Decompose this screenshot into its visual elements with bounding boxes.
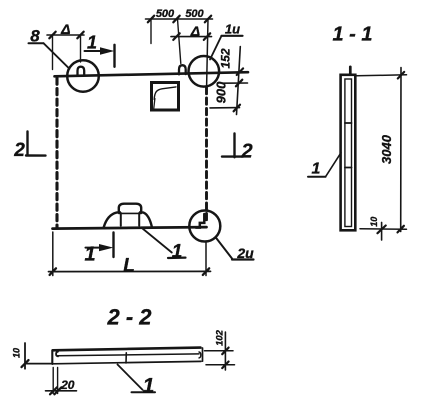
section mark 2 right arm xyxy=(222,155,243,157)
tick xyxy=(398,72,404,79)
bottom loop legs xyxy=(120,213,122,226)
plan left edge (hidden, dashed) xyxy=(55,78,58,228)
svg-text:500: 500 xyxy=(156,8,175,20)
tick xyxy=(50,387,57,394)
extension line left of 500 xyxy=(150,19,152,44)
corner step detail bottom-right xyxy=(196,214,204,228)
label 2i bottom-right leader and underline xyxy=(216,238,232,259)
opening (hole) square xyxy=(152,83,179,111)
tick xyxy=(204,33,210,40)
bottom L dimension line xyxy=(49,270,211,272)
1-1 crossbar lower xyxy=(345,167,352,169)
svg-text:Δ: Δ xyxy=(190,23,200,39)
1-1 top extension xyxy=(357,75,407,76)
extension at y108 xyxy=(210,107,240,109)
2-2 dim 102 bottom extension xyxy=(206,364,235,366)
svg-text:2: 2 xyxy=(240,140,252,162)
dimension delta top-left line xyxy=(47,34,84,36)
tick xyxy=(173,33,179,40)
right vertical dimension line xyxy=(237,47,241,115)
2-2 right groove xyxy=(199,352,201,358)
bottom loop cap xyxy=(119,204,141,213)
tick xyxy=(173,16,179,23)
tick xyxy=(205,16,211,23)
tick xyxy=(222,362,228,369)
svg-text:L: L xyxy=(123,256,135,277)
section mark 1 bottom arrowhead xyxy=(99,244,113,251)
2-2 dim 20 line xyxy=(46,390,77,392)
1-1 panel inner rect xyxy=(345,79,352,227)
detail circle bottom-right xyxy=(189,211,220,242)
svg-text:3040: 3040 xyxy=(379,134,394,164)
1-1 label 1 underline and leader xyxy=(308,176,326,178)
section mark 2 right bar xyxy=(233,134,235,158)
2-2 panel right edge xyxy=(202,348,204,361)
svg-text:10: 10 xyxy=(11,348,21,358)
svg-text:1и: 1и xyxy=(225,21,240,36)
section mark 1 top bar xyxy=(113,45,115,67)
2-2 panel left edge xyxy=(51,350,53,364)
detail circle top-right xyxy=(189,56,220,87)
plan top edge xyxy=(55,72,249,76)
lifting loop top-left xyxy=(78,67,85,76)
bottom L dimension extensions xyxy=(52,232,54,276)
svg-text:Δ: Δ xyxy=(60,21,70,37)
svg-text:102: 102 xyxy=(215,329,226,346)
tick xyxy=(378,226,386,234)
svg-text:500: 500 xyxy=(185,8,204,20)
dimension 500+500 line xyxy=(146,18,213,20)
tick xyxy=(54,387,61,394)
detail circle top-left xyxy=(67,60,99,92)
extension at y83 xyxy=(222,82,248,84)
tick xyxy=(222,348,228,355)
1-1 dimension 3040 line xyxy=(400,68,402,232)
svg-text:2и: 2и xyxy=(236,245,254,261)
section mark 2 left bar xyxy=(26,132,28,156)
tick xyxy=(398,226,404,233)
1-1 dim 10 line xyxy=(381,222,383,240)
tick xyxy=(234,105,240,112)
2-2 panel bottom line xyxy=(53,361,201,363)
tick xyxy=(237,68,243,75)
2-2 dim 10 left vertical xyxy=(24,343,26,369)
svg-text:900: 900 xyxy=(214,81,229,103)
1-1 top stub xyxy=(349,67,352,75)
tick xyxy=(203,268,209,275)
leader to bottom loop label 1 xyxy=(143,229,172,253)
tick xyxy=(236,80,242,87)
section mark 1 top line xyxy=(85,50,104,52)
2-2 mid joint xyxy=(125,353,127,363)
label 8 underline and leader xyxy=(29,42,44,44)
svg-text:152: 152 xyxy=(219,48,233,68)
2-2 dim 102 top extension xyxy=(205,350,234,352)
tick xyxy=(22,360,29,367)
svg-text:1: 1 xyxy=(143,375,155,398)
section mark 1 bottom line xyxy=(86,247,103,249)
label 1i top-right underline and leader xyxy=(222,35,243,37)
extension left xyxy=(52,35,54,70)
section mark 2 left arm xyxy=(26,154,46,157)
extension right to loop xyxy=(80,35,82,62)
svg-text:8: 8 xyxy=(30,27,40,46)
1-1 bottom extension xyxy=(360,228,407,231)
opening inner chamfer xyxy=(154,87,176,100)
2-2 panel top line xyxy=(53,348,201,351)
svg-text:1 - 1: 1 - 1 xyxy=(332,24,372,46)
bottom loop surface line xyxy=(119,212,141,214)
2-2 dim 10 left horizontal xyxy=(25,363,51,365)
section mark 1 top arrowhead xyxy=(100,47,114,55)
1-1 panel outer rect xyxy=(341,75,356,231)
svg-text:1: 1 xyxy=(87,33,97,53)
plan bottom edge xyxy=(53,227,207,229)
svg-text:2: 2 xyxy=(13,140,25,161)
dimension delta top-right line xyxy=(171,36,212,38)
2-2 dim 102 line xyxy=(224,332,226,370)
svg-text:20: 20 xyxy=(60,378,75,392)
2-2 dim 20 extensions xyxy=(52,368,54,394)
tick xyxy=(148,16,154,23)
lifting loop top-right xyxy=(179,65,186,74)
tick xyxy=(49,32,55,39)
section mark 1 bottom bar xyxy=(112,233,114,258)
svg-text:1: 1 xyxy=(84,244,95,266)
1-1 crossbar upper xyxy=(345,122,352,124)
svg-text:1: 1 xyxy=(172,242,183,263)
extension line through corner xyxy=(207,19,208,87)
tick xyxy=(50,268,56,275)
tick xyxy=(77,32,83,39)
svg-text:1: 1 xyxy=(312,161,321,178)
2-2 panel middle line xyxy=(58,354,200,356)
plan right edge (hidden, dashed) xyxy=(205,88,208,223)
extension line middle to loop xyxy=(178,19,181,64)
svg-text:10: 10 xyxy=(369,217,379,227)
2-2 label 1 leader and underline xyxy=(118,365,143,390)
svg-text:2 - 2: 2 - 2 xyxy=(106,305,152,330)
bottom lifting loop mound xyxy=(104,212,152,227)
2-2 left groove xyxy=(56,352,58,357)
